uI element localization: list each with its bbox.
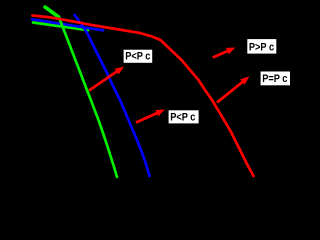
svg-text:P=P c: P=P c	[262, 73, 287, 85]
svg-text:P<P c: P<P c	[170, 111, 195, 123]
svg-text:P>P c: P>P c	[249, 42, 274, 54]
svg-text:P<P c: P<P c	[125, 51, 150, 63]
